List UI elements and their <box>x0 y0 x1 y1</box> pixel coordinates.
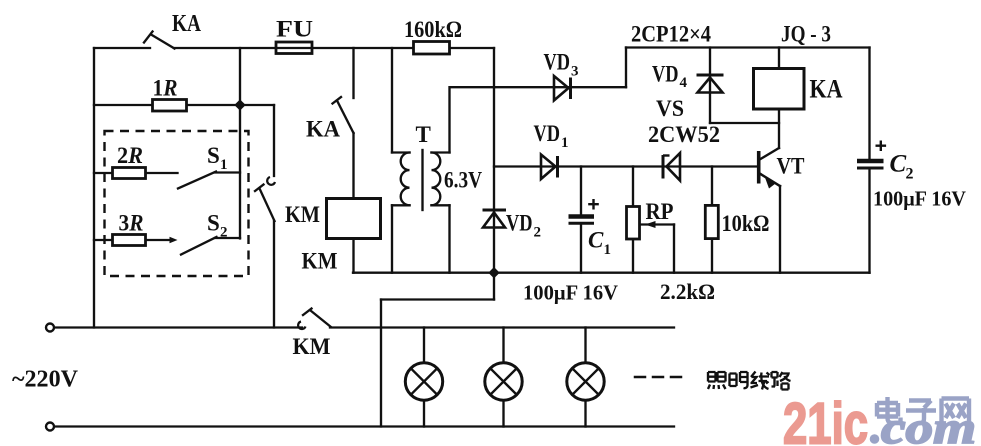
svg-text:1R: 1R <box>153 76 178 101</box>
svg-text:100μF 16V: 100μF 16V <box>873 187 966 211</box>
svg-text:T: T <box>416 122 431 147</box>
svg-text:2.2kΩ: 2.2kΩ <box>660 279 715 304</box>
svg-text:RP: RP <box>646 199 674 224</box>
svg-text:10kΩ: 10kΩ <box>722 211 770 236</box>
svg-text:2CP12×4: 2CP12×4 <box>631 22 711 47</box>
svg-text:1: 1 <box>604 242 612 258</box>
svg-text:2: 2 <box>906 166 914 183</box>
svg-text:FU: FU <box>276 17 313 42</box>
svg-text:~220V: ~220V <box>12 367 79 393</box>
svg-text:3: 3 <box>571 64 579 80</box>
svg-text:4: 4 <box>680 75 688 91</box>
svg-text:C: C <box>588 228 604 253</box>
svg-text:160kΩ: 160kΩ <box>404 17 462 42</box>
svg-text:VS: VS <box>656 96 684 121</box>
svg-text:1: 1 <box>561 135 569 151</box>
svg-text:VD: VD <box>544 50 571 75</box>
svg-text:KM: KM <box>293 334 331 359</box>
svg-text:21ic: 21ic <box>783 392 868 446</box>
svg-text:2: 2 <box>534 225 542 241</box>
svg-text:1: 1 <box>220 157 228 173</box>
svg-text:S: S <box>207 143 220 168</box>
svg-text:VD: VD <box>506 211 533 236</box>
svg-text:KM: KM <box>302 249 338 274</box>
svg-text:3R: 3R <box>119 211 144 236</box>
svg-text:VD: VD <box>652 62 679 87</box>
svg-text:6.3V: 6.3V <box>444 168 482 193</box>
svg-text:2CW52: 2CW52 <box>648 122 720 147</box>
svg-text:JQ - 3: JQ - 3 <box>781 22 831 47</box>
svg-text:2: 2 <box>220 225 228 241</box>
svg-text:KA: KA <box>306 117 340 142</box>
svg-text:S: S <box>207 211 220 236</box>
svg-text:VD: VD <box>534 121 561 146</box>
svg-text:2R: 2R <box>117 143 143 168</box>
svg-text:KA: KA <box>172 10 201 37</box>
svg-text:VT: VT <box>777 154 805 179</box>
svg-text:KA: KA <box>810 75 843 104</box>
svg-text:100μF 16V: 100μF 16V <box>523 281 618 305</box>
svg-text:KM: KM <box>285 202 320 227</box>
svg-text:C: C <box>890 151 907 178</box>
